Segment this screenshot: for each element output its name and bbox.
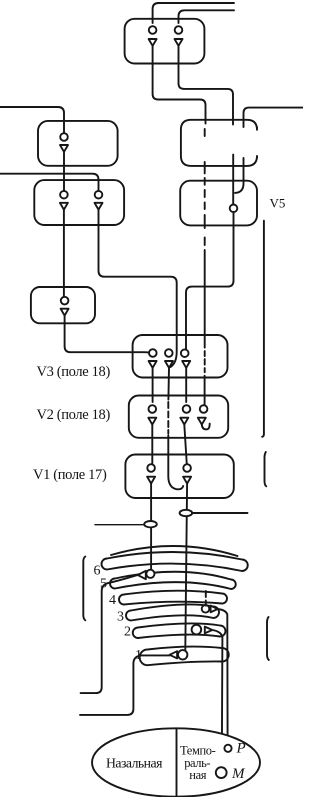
box4 U2 (area V5) xyxy=(180,181,257,226)
left bracket xyxy=(83,557,85,621)
LGN layer4 cell circle xyxy=(202,605,210,613)
LGN layer 4 band xyxy=(119,591,227,605)
cell U1b output triangle xyxy=(175,39,183,46)
cell 5 output triangle xyxy=(61,309,69,316)
svg-text:V5: V5 xyxy=(270,196,286,211)
P fiber from retina to layer 4 terminal xyxy=(218,609,228,744)
box B (left, two cells) xyxy=(34,180,124,225)
svg-text:V2 (поле 18): V2 (поле 18) xyxy=(37,407,111,423)
nasal fiber 2 into layer 1 xyxy=(80,655,170,715)
cut oval on right optic radiation xyxy=(180,510,193,516)
dashed through V2 xyxy=(167,402,169,434)
V1 cell 2 triangle xyxy=(183,477,191,484)
wire boxB cell a triangle down to box5 circle xyxy=(63,210,65,297)
V2 cell C triangle xyxy=(198,418,206,425)
cell Ba output triangle xyxy=(60,203,68,210)
right margin bracket segment 2 xyxy=(264,452,266,486)
cell A output triangle xyxy=(60,145,68,152)
svg-text:М: М xyxy=(231,766,246,782)
retina ellipse xyxy=(92,728,260,796)
cut oval on left optic radiation xyxy=(144,521,157,527)
V3 cell1 circle xyxy=(149,349,157,357)
svg-text:Р: Р xyxy=(236,741,246,757)
svg-text:ная: ная xyxy=(189,768,206,782)
box U1 (top cortical box) xyxy=(125,19,205,64)
cell 5 input circle xyxy=(61,297,69,305)
retina divider xyxy=(176,729,178,798)
box V3 xyxy=(133,335,228,378)
wire V1 cell1 axon down to LGN layer-6 cell xyxy=(150,484,152,571)
wire V1 cell2 axon down to LGN layer-1 cell xyxy=(185,484,187,651)
cell U1a output triangle xyxy=(149,39,157,46)
LGN layer1 cell circle xyxy=(178,650,187,659)
svg-text:4: 4 xyxy=(109,593,116,608)
box V2 xyxy=(129,396,228,438)
svg-text:V1 (поле 17): V1 (поле 17) xyxy=(33,467,107,483)
dashed line above layer4 cell xyxy=(205,591,207,606)
wire boxA triangle to boxB circle a xyxy=(63,152,65,191)
wire W3: U1a triangle down, right, down into box3 (becomes dashed) xyxy=(153,46,206,124)
retina P cell circle xyxy=(224,745,231,752)
wire W3 dashed continuation through box3, box4, V3 to V2 circle C xyxy=(204,129,206,405)
right margin bracket segment 1 xyxy=(262,221,264,437)
box3 (upper right box, right edge broken) xyxy=(181,120,257,166)
wire V3 cell3 to V2 circle B xyxy=(185,368,187,402)
LGN layer 5 band xyxy=(110,572,236,589)
svg-text:Назальная: Назальная xyxy=(106,756,163,771)
box A (left, one cell) xyxy=(38,121,118,166)
V1 cell 1 triangle xyxy=(147,477,155,484)
cell Ba input circle xyxy=(60,191,68,199)
V1 cell 2 circle xyxy=(183,464,191,472)
V5 input circle xyxy=(230,205,238,213)
LGN layer 6 band xyxy=(102,552,248,571)
wire continues into V1, hook to V1 cell2 triangle xyxy=(168,435,183,489)
V3 cell1 triangle xyxy=(149,361,157,368)
svg-text:2: 2 xyxy=(124,625,131,640)
M fiber from retina to layer 2 terminal xyxy=(212,630,222,767)
wire W4: boxB cell b triangle down, right, down into V3 hook to cell2 xyxy=(99,210,177,367)
wire V2 cell A to V1 circle 1 xyxy=(151,425,153,465)
right margin bracket segment 3 xyxy=(267,617,269,660)
wire H1 from left edge into boxA circle xyxy=(0,107,64,133)
box V1 xyxy=(125,455,233,499)
LGN layer2 terminal triangle xyxy=(205,627,213,634)
wire top feed to U1 circle b (truncated right) xyxy=(179,10,235,23)
LGN outer fiber arc over layer 6 xyxy=(111,546,238,556)
wire W1 lower segment to V5 input circle xyxy=(232,155,234,205)
V2 cell B circle xyxy=(183,405,191,413)
cell A input circle xyxy=(60,133,68,141)
LGN layer4 terminal triangle xyxy=(211,606,218,613)
cell U1a input circle xyxy=(149,26,157,34)
svg-text:3: 3 xyxy=(117,610,124,625)
retina M cell circle xyxy=(216,767,227,778)
V2 cell A triangle xyxy=(148,418,156,425)
cell Bb input circle xyxy=(95,191,103,199)
LGN layer 3 band xyxy=(126,604,219,620)
wire W2 lower segment xyxy=(235,158,244,193)
wire V3 cell1 to V2 circle A xyxy=(152,368,154,402)
wire W6: box5 triangle down, right into V3 circle c1 xyxy=(65,316,149,353)
wire V3 cell2 output dashed through V2 xyxy=(167,368,170,400)
cell U1b input circle xyxy=(175,26,183,34)
LGN layer 1 band xyxy=(140,647,229,666)
LGN layer 2 band xyxy=(133,623,226,638)
LGN layer1 terminal triangle xyxy=(170,651,178,658)
wire top feed to U1 circle a (truncated right) xyxy=(153,3,234,23)
svg-text:V3 (поле 18): V3 (поле 18) xyxy=(37,364,111,380)
V2 cell C circle xyxy=(200,405,208,413)
wire H2 from left edge into boxB circle b xyxy=(0,174,99,191)
wire V2 cell B to V1 circle 2 xyxy=(184,425,187,465)
LGN layer2 cell circle xyxy=(192,625,202,635)
V1 cell 1 circle xyxy=(147,464,155,472)
V3 cell3 circle xyxy=(181,349,189,357)
LGN layer6 cell circle xyxy=(146,570,154,578)
nasal fiber into layer 5 and to layer6 terminal xyxy=(81,575,138,693)
V2 cell C axon curl xyxy=(202,424,210,430)
V3 cell2 triangle xyxy=(165,361,173,368)
section line right xyxy=(192,512,248,514)
section line left xyxy=(95,524,144,526)
cell Bb output triangle xyxy=(95,203,103,210)
wire W2 from right edge into V5, hook to circle xyxy=(244,108,304,127)
V3 cell3 triangle xyxy=(182,361,190,368)
V2 cell A circle xyxy=(149,405,157,413)
LGN layer6 terminal triangle xyxy=(138,571,146,579)
V3 cell2 circle xyxy=(165,349,173,357)
wire W1: U1b triangle down, right, down into box3 xyxy=(179,46,234,125)
V2 cell B triangle xyxy=(180,418,188,425)
wire V5 output: down, jog left, down to V3 circle c3 xyxy=(186,212,234,350)
box 5 (small left box) xyxy=(31,287,95,323)
